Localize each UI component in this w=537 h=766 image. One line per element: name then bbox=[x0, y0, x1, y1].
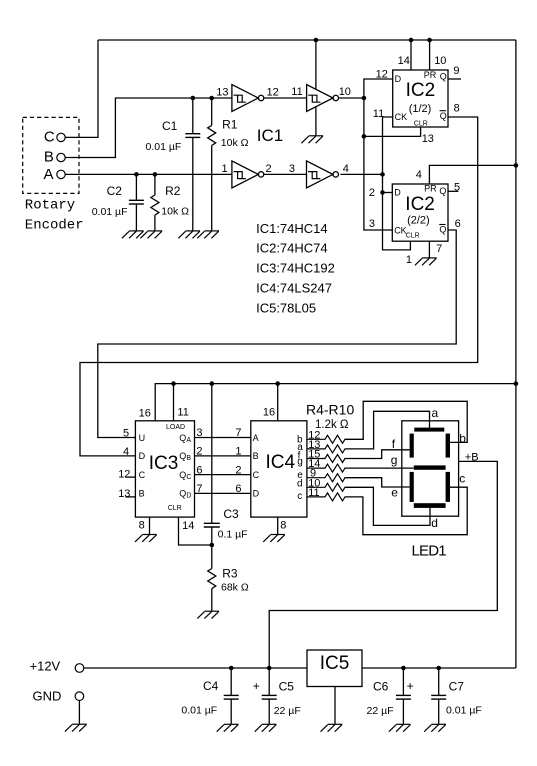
value 68k ohm bbox=[221, 582, 249, 594]
label C3 bbox=[223, 507, 239, 521]
wire: IC3 pin 11 LOAD to VCC rail bbox=[173, 384, 175, 421]
svg-text:PR: PR bbox=[424, 184, 437, 194]
wire: R7 to LED segment g bbox=[345, 467, 414, 469]
pin label 13 bbox=[118, 488, 130, 500]
pin label 9 bbox=[453, 65, 459, 77]
wire: IC2 pin 5 stub bbox=[448, 190, 458, 192]
svg-text:U: U bbox=[139, 433, 146, 443]
svg-text:2: 2 bbox=[235, 464, 241, 476]
capacitor C1 bbox=[192, 98, 194, 231]
label IC1 bbox=[257, 126, 283, 145]
wire: gate2 output to node B vertical bbox=[339, 97, 364, 99]
label R3 bbox=[222, 567, 238, 581]
svg-text:13: 13 bbox=[118, 488, 130, 500]
svg-text:(2/2): (2/2) bbox=[407, 215, 430, 227]
svg-text:2: 2 bbox=[266, 163, 272, 175]
svg-text:12: 12 bbox=[118, 468, 130, 480]
wire: +5V top rail from encoder C to right side bbox=[98, 39, 516, 41]
pin label 11 (IC3) bbox=[177, 406, 188, 418]
svg-text:C: C bbox=[44, 128, 55, 145]
wire: IC2 pin 8 Qbar1 down to IC3 D input bbox=[80, 117, 478, 456]
pin label D (FF2) bbox=[394, 188, 401, 198]
label IC2 (2/2) bbox=[405, 194, 435, 215]
wire: IC2 pin 9 stub bbox=[448, 78, 461, 80]
resistor R7 (segment g row) bbox=[307, 464, 345, 472]
resistor R6 (segment f row) bbox=[307, 455, 345, 463]
svg-text:g: g bbox=[391, 453, 398, 467]
pin label 5 bbox=[454, 181, 460, 193]
wire: GND terminal to ground bbox=[78, 701, 80, 725]
wire: gate1 output to gate2 input bbox=[264, 97, 307, 99]
wire: IC2 pin 10 PR1 from top rail bbox=[429, 40, 431, 70]
svg-text:c: c bbox=[459, 472, 465, 486]
wire: IC3 QC to IC4 C bbox=[195, 474, 251, 476]
flip-flop IC2 (1/2) box bbox=[393, 70, 448, 127]
pin label 2 / 1 row bbox=[196, 446, 241, 458]
pin label QB bbox=[179, 451, 191, 462]
svg-text:1: 1 bbox=[235, 446, 241, 458]
label LED1 bbox=[412, 542, 447, 559]
wire: VCC rail above IC3/IC4 bbox=[155, 384, 516, 421]
wire: IC2 pin 14 VCC from top rail bbox=[410, 40, 412, 70]
pin label QA bbox=[179, 433, 191, 444]
svg-text:5: 5 bbox=[454, 181, 460, 193]
decoder IC4 74LS247 box bbox=[251, 421, 307, 517]
svg-text:7: 7 bbox=[235, 427, 241, 439]
pin label D bbox=[139, 451, 146, 461]
label Encoder bbox=[25, 218, 84, 234]
resistor R4 (segment b row) bbox=[307, 435, 345, 443]
wire: IC4 pin 16 to VCC rail bbox=[277, 384, 279, 421]
svg-text:CLR: CLR bbox=[406, 232, 420, 239]
svg-text:68k Ω: 68k Ω bbox=[221, 582, 249, 594]
svg-text:A: A bbox=[44, 166, 54, 183]
wire: R9 to LED segment d bbox=[345, 487, 430, 525]
wire: encoder B phase to inverter IC1a input bbox=[65, 98, 232, 158]
svg-text:12: 12 bbox=[376, 69, 388, 81]
svg-text:0.01 µF: 0.01 µF bbox=[181, 704, 217, 716]
LED segment e bar bbox=[410, 472, 414, 502]
label GND bbox=[33, 688, 62, 703]
ground under IC2 pin 7 bbox=[415, 258, 437, 265]
svg-text:C7: C7 bbox=[449, 679, 465, 693]
svg-text:IC3: IC3 bbox=[149, 453, 179, 474]
terminal +12V bbox=[75, 664, 84, 673]
flip-flop IC2 (2/2) box bbox=[392, 184, 448, 241]
svg-text:CLR: CLR bbox=[168, 505, 182, 512]
wire: IC3 pin 12 stub bbox=[126, 476, 136, 478]
wire: node B vertical (D1 / CK2 line) bbox=[364, 79, 393, 230]
value 10k ohm R2 bbox=[161, 206, 189, 218]
label C bbox=[44, 128, 55, 145]
svg-text:IC5: IC5 bbox=[320, 653, 350, 674]
ground under C2 bbox=[122, 231, 144, 238]
wire: IC4 pin 8 GND bbox=[277, 517, 279, 534]
inverter IC1 gate3 (pins 1-2) bbox=[232, 161, 264, 188]
label C7 bbox=[449, 679, 465, 693]
svg-text:C: C bbox=[139, 470, 146, 480]
wire: R4 to LED segment b bbox=[345, 401, 467, 442]
IC4 output pin numbers 12 13 15 14 9 10 11 bbox=[308, 429, 320, 499]
pin label 6 / 2 row bbox=[196, 464, 241, 476]
svg-text:IC2: IC2 bbox=[406, 80, 436, 101]
svg-text:4: 4 bbox=[123, 446, 129, 458]
pin label Q (FF2) bbox=[439, 186, 446, 196]
svg-text:PR: PR bbox=[424, 70, 437, 80]
svg-text:(1/2): (1/2) bbox=[409, 103, 432, 115]
pin label D (FF1) bbox=[395, 74, 402, 84]
svg-text:C6: C6 bbox=[373, 679, 389, 693]
wire: R10 to LED segment c bbox=[345, 487, 467, 535]
label R2 bbox=[165, 184, 181, 198]
wire: R6 to LED segment f bbox=[345, 450, 409, 459]
capacitor C7 bbox=[438, 668, 440, 724]
LED segment c bar bbox=[446, 472, 450, 502]
label C5 bbox=[279, 679, 295, 693]
wire: IC3 pin 14 CLR to C3/R3 node bbox=[179, 517, 212, 545]
resistor R10 (segment c row) bbox=[307, 493, 345, 501]
svg-text:+12V: +12V bbox=[30, 658, 61, 673]
svg-text:C2: C2 bbox=[107, 184, 123, 198]
svg-text:CLR: CLR bbox=[414, 120, 428, 127]
regulator IC5 78L05 box bbox=[307, 650, 362, 687]
wire: IC5 GND pin bbox=[334, 687, 336, 725]
label B bbox=[44, 149, 54, 166]
pin label 2 bbox=[266, 163, 272, 175]
pin label 5 bbox=[123, 428, 129, 440]
op-amp style inverter IC1 gate1 (pins 13-12) bbox=[232, 85, 264, 112]
svg-text:GND: GND bbox=[33, 688, 62, 703]
wire: IC3 pin 8 GND bbox=[149, 517, 151, 534]
pin label 3 bbox=[289, 163, 295, 175]
ground under GND terminal bbox=[65, 724, 87, 731]
svg-text:IC4: IC4 bbox=[266, 452, 296, 473]
value 0.01 uF C7 bbox=[446, 704, 482, 716]
svg-text:LOAD: LOAD bbox=[166, 424, 185, 431]
ground under R1 bbox=[197, 231, 219, 238]
svg-text:0.01 µF: 0.01 µF bbox=[446, 704, 482, 716]
segment label e bbox=[391, 486, 398, 500]
pin label 3 bbox=[369, 218, 375, 230]
ground under gate2 bbox=[301, 136, 323, 143]
segment label c bbox=[459, 472, 465, 486]
node dot C3/R3/pin14 bbox=[210, 543, 215, 548]
pin label 13 bbox=[422, 133, 434, 145]
resistor R1 bbox=[208, 98, 216, 231]
LED segment b bar bbox=[446, 434, 450, 458]
LED segment d bar bbox=[414, 503, 446, 508]
ground under C5 bbox=[255, 724, 277, 731]
wire: PR2 to right +5V vertical bbox=[429, 165, 516, 184]
svg-text:C3: C3 bbox=[223, 507, 239, 521]
svg-text:B: B bbox=[253, 451, 259, 461]
pin label 6 bbox=[455, 218, 461, 230]
svg-text:16: 16 bbox=[139, 408, 151, 420]
pin label PR (FF1) bbox=[424, 70, 437, 80]
pin label 3 / 7 row bbox=[196, 427, 241, 439]
svg-text:3: 3 bbox=[196, 427, 202, 439]
value 22 uF C5 bbox=[274, 705, 301, 717]
svg-text:14: 14 bbox=[182, 520, 194, 532]
wire: +B common anode to +12V rail bbox=[269, 461, 497, 668]
segment label b bbox=[459, 432, 466, 446]
svg-text:Rotary: Rotary bbox=[25, 198, 75, 214]
svg-text:C4: C4 bbox=[203, 679, 219, 693]
svg-text:Q: Q bbox=[440, 71, 447, 81]
svg-text:LED1: LED1 bbox=[412, 542, 447, 559]
svg-text:22 µF: 22 µF bbox=[367, 705, 394, 717]
label C1 bbox=[162, 119, 178, 133]
pin label 2 bbox=[369, 187, 375, 199]
pin label 16 (IC4) bbox=[263, 407, 275, 419]
svg-text:13: 13 bbox=[422, 133, 434, 145]
pin label CK (FF2) bbox=[394, 226, 407, 236]
LED1 package box bbox=[402, 421, 459, 516]
svg-text:3: 3 bbox=[289, 163, 295, 175]
terminal C bbox=[57, 133, 65, 141]
svg-text:12: 12 bbox=[267, 87, 279, 99]
pin label QC bbox=[179, 470, 191, 481]
svg-text:CK: CK bbox=[395, 112, 408, 122]
segment label a bbox=[432, 406, 439, 420]
pin label 10 bbox=[434, 55, 446, 67]
wire: IC1 GND stub below gate2 bbox=[315, 107, 317, 136]
wire: CLR1 link to node B bbox=[364, 127, 421, 136]
pin label 11 bbox=[291, 86, 302, 98]
ground under C7 bbox=[424, 724, 446, 731]
pin label CLR (FF1) bbox=[414, 120, 428, 127]
svg-text:0.01 µF: 0.01 µF bbox=[146, 141, 182, 153]
resistor R2 bbox=[151, 174, 159, 231]
svg-text:16: 16 bbox=[263, 407, 275, 419]
label A bbox=[44, 166, 54, 183]
wire: R5 to LED segment a bbox=[345, 411, 429, 449]
label C4 bbox=[203, 679, 219, 693]
capacitor C5 electrolytic bbox=[268, 668, 270, 724]
pin label Qbar (FF2) bbox=[439, 225, 446, 235]
svg-text:0.01 µF: 0.01 µF bbox=[92, 206, 128, 218]
svg-text:IC5:78L05: IC5:78L05 bbox=[256, 301, 316, 316]
svg-text:10: 10 bbox=[434, 55, 446, 67]
pin label B bbox=[139, 489, 145, 499]
svg-text:11: 11 bbox=[177, 406, 188, 418]
pin label A bbox=[253, 433, 259, 443]
capacitor C2 bbox=[135, 174, 137, 231]
parts list text bbox=[256, 221, 335, 316]
svg-text:g: g bbox=[297, 457, 303, 468]
value 0.01 uF C4 bbox=[181, 704, 217, 716]
wire: IC2 pin 7 GND bbox=[428, 241, 430, 258]
svg-text:3: 3 bbox=[369, 218, 375, 230]
inverter IC1 gate4 (pins 3-4) bbox=[307, 161, 339, 188]
pin label 4 (PR2) bbox=[416, 169, 422, 181]
segment label g bbox=[391, 453, 398, 467]
pin label 4 bbox=[343, 163, 349, 175]
svg-text:A: A bbox=[253, 433, 259, 443]
pin label Qbar (FF1) bbox=[440, 111, 447, 121]
svg-text:d: d bbox=[297, 479, 303, 490]
wire: encoder C phase up to top rail bbox=[65, 40, 98, 137]
svg-text:Encoder: Encoder bbox=[25, 218, 84, 234]
label (1/2) bbox=[409, 103, 432, 115]
wire: IC3 QD to IC4 D bbox=[195, 492, 251, 494]
capacitor C4 bbox=[230, 668, 232, 724]
pin label 7 / 6 row bbox=[196, 483, 241, 495]
svg-text:0.1 µF: 0.1 µF bbox=[218, 529, 248, 541]
pin label 8 (IC4) bbox=[280, 519, 286, 531]
pin label 1 (CLR2) bbox=[406, 254, 412, 266]
wire: gate3 output to gate4 input bbox=[264, 173, 307, 175]
svg-text:C1: C1 bbox=[162, 119, 178, 133]
wire: IC1 VCC stub from top rail into gate2 bbox=[315, 40, 317, 89]
resistor R8 (segment e row) bbox=[307, 474, 345, 482]
wire: node A vertical (CK1 / D2 line) bbox=[383, 117, 411, 250]
svg-text:IC4:74LS247: IC4:74LS247 bbox=[256, 281, 332, 296]
pin label 4 bbox=[123, 446, 129, 458]
svg-text:5: 5 bbox=[123, 428, 129, 440]
label IC4 bbox=[266, 452, 296, 473]
label R4-R10 bbox=[306, 402, 354, 418]
svg-text:D: D bbox=[394, 188, 401, 198]
svg-text:4: 4 bbox=[343, 163, 349, 175]
svg-text:a: a bbox=[432, 406, 439, 420]
svg-text:+: + bbox=[253, 679, 260, 693]
pin label C (IC4) bbox=[253, 470, 260, 480]
svg-text:R4-R10: R4-R10 bbox=[306, 402, 354, 418]
wire: IC3 QB to IC4 B bbox=[195, 455, 251, 457]
svg-text:IC2:74HC74: IC2:74HC74 bbox=[256, 241, 328, 256]
ground under C6 bbox=[389, 724, 411, 731]
ground under R2 bbox=[140, 231, 162, 238]
svg-text:IC1:74HC14: IC1:74HC14 bbox=[256, 221, 328, 236]
svg-text:Q: Q bbox=[439, 186, 446, 196]
svg-text:11: 11 bbox=[291, 86, 302, 98]
svg-text:D: D bbox=[253, 489, 260, 499]
terminal A bbox=[57, 170, 65, 178]
wire: +12V rail left of IC5 bbox=[84, 667, 307, 669]
label IC2 (1/2) bbox=[406, 80, 436, 101]
VCC rail junction dots bbox=[171, 381, 280, 386]
pin label PR (FF2) bbox=[424, 184, 437, 194]
svg-text:B: B bbox=[139, 489, 145, 499]
svg-text:8: 8 bbox=[139, 520, 145, 532]
svg-text:2: 2 bbox=[369, 187, 375, 199]
wire: IC2 pin 6 Qbar2 down to IC3 U input bbox=[98, 230, 456, 438]
svg-text:7: 7 bbox=[196, 483, 202, 495]
svg-text:7: 7 bbox=[436, 243, 442, 255]
svg-text:b: b bbox=[459, 432, 466, 446]
svg-text:14: 14 bbox=[398, 55, 410, 67]
svg-text:10: 10 bbox=[339, 86, 351, 98]
pin label CK (FF1) bbox=[395, 112, 408, 122]
svg-text:D: D bbox=[139, 451, 146, 461]
svg-text:d: d bbox=[431, 516, 438, 530]
svg-text:IC2: IC2 bbox=[405, 194, 435, 215]
terminal B bbox=[57, 153, 65, 161]
svg-text:4: 4 bbox=[416, 169, 422, 181]
plus sign C6 bbox=[407, 679, 414, 693]
pin label 14 (IC3) bbox=[182, 520, 194, 532]
resistor R5 (segment a row) bbox=[307, 445, 345, 453]
pin label D (IC4) bbox=[253, 489, 260, 499]
pin label 10 bbox=[339, 86, 351, 98]
wire: gate4 output to node A vertical bbox=[340, 173, 382, 175]
plus sign C5 bbox=[253, 679, 260, 693]
resistor R3 bbox=[208, 545, 216, 611]
wire: IC3 QA to IC4 A bbox=[195, 437, 251, 439]
label IC5 bbox=[320, 653, 350, 674]
svg-text:R2: R2 bbox=[165, 184, 181, 198]
svg-text:2: 2 bbox=[196, 446, 202, 458]
capacitor C6 electrolytic bbox=[402, 668, 404, 724]
svg-text:9: 9 bbox=[453, 65, 459, 77]
svg-text:R3: R3 bbox=[222, 567, 238, 581]
label (2/2) bbox=[407, 215, 430, 227]
svg-text:6: 6 bbox=[455, 218, 461, 230]
rotary encoder dashed box bbox=[23, 117, 79, 193]
label C6 bbox=[373, 679, 389, 693]
inverter IC1 gate2 (pins 11-10) bbox=[307, 85, 339, 112]
LED segment a bar bbox=[414, 428, 444, 432]
svg-text:e: e bbox=[391, 486, 398, 500]
svg-text:C: C bbox=[253, 470, 260, 480]
pin label 12 bbox=[267, 87, 279, 99]
svg-text:22 µF: 22 µF bbox=[274, 705, 301, 717]
svg-text:Q: Q bbox=[439, 225, 446, 235]
IC4 output letters b a f g e d c bbox=[297, 435, 303, 502]
svg-text:1: 1 bbox=[222, 163, 228, 175]
svg-text:10k Ω: 10k Ω bbox=[221, 137, 249, 149]
label C2 bbox=[107, 184, 123, 198]
ground under C4 bbox=[217, 724, 239, 731]
svg-text:1: 1 bbox=[406, 254, 412, 266]
ground under R3 bbox=[197, 611, 219, 618]
svg-text:R1: R1 bbox=[222, 117, 238, 131]
terminal GND bbox=[75, 692, 84, 701]
svg-text:8: 8 bbox=[280, 519, 286, 531]
ground under C1 bbox=[178, 231, 200, 238]
wire: right-side +5V vertical down to bottom rail bbox=[515, 40, 517, 668]
pin label 16 (IC3) bbox=[139, 408, 151, 420]
pin label 1 bbox=[222, 163, 228, 175]
ground under IC5 bbox=[321, 724, 343, 731]
pin label CLR (FF2) bbox=[406, 232, 420, 239]
svg-text:11: 11 bbox=[373, 108, 384, 120]
pin label 14 bbox=[398, 55, 410, 67]
svg-text:10k Ω: 10k Ω bbox=[161, 206, 189, 218]
pin label 8 (IC3) bbox=[139, 520, 145, 532]
svg-text:Q: Q bbox=[440, 111, 447, 121]
resistor R9 (segment d row) bbox=[307, 483, 345, 491]
pin label 13 bbox=[216, 87, 228, 99]
pin label CLR (IC3) bbox=[168, 505, 182, 512]
ground under IC3 pin 8 bbox=[135, 535, 157, 542]
value 1.2k ohm bbox=[315, 419, 349, 431]
label R1 bbox=[222, 117, 238, 131]
pin label 8 bbox=[454, 102, 460, 114]
node junction dots bbox=[134, 38, 518, 386]
value 22 uF C6 bbox=[367, 705, 394, 717]
pin label 12 bbox=[118, 468, 130, 480]
label +B bbox=[465, 452, 479, 464]
segment label d bbox=[431, 516, 438, 530]
svg-text:13: 13 bbox=[216, 87, 228, 99]
pin label 12 bbox=[376, 69, 388, 81]
value 0.01 uF C1 bbox=[146, 141, 182, 153]
svg-text:6: 6 bbox=[235, 483, 241, 495]
pin label C bbox=[139, 470, 146, 480]
svg-text:B: B bbox=[44, 149, 54, 166]
